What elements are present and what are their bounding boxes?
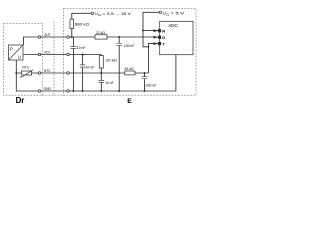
svg-text:Dr: Dr (16, 96, 25, 105)
svg-text:R: R (162, 28, 165, 33)
svg-text:ADC: ADC (168, 23, 178, 28)
svg-text:10 nF: 10 nF (77, 46, 86, 50)
svg-text:20 kΩ: 20 kΩ (106, 59, 117, 63)
svg-text:680 kΩ: 680 kΩ (75, 22, 90, 26)
svg-text:D: D (162, 35, 165, 40)
svg-text:P: P (10, 47, 13, 52)
svg-text:39 kΩ: 39 kΩ (125, 67, 134, 71)
svg-text:OUT: OUT (44, 33, 51, 37)
svg-text:E: E (127, 98, 132, 105)
svg-text:= 5 V: = 5 V (170, 10, 184, 15)
svg-text:U: U (18, 54, 21, 59)
svg-text:VCC: VCC (44, 51, 51, 55)
svg-text:CL: CL (166, 12, 170, 16)
svg-text:= 5,5 ... 16 V: = 5,5 ... 16 V (103, 11, 132, 16)
svg-text:100 nF: 100 nF (124, 44, 135, 48)
svg-text:NTC: NTC (22, 65, 29, 69)
svg-text:10 nF: 10 nF (105, 81, 114, 85)
svg-text:CL: CL (98, 13, 102, 17)
svg-text:GND: GND (44, 87, 51, 91)
svg-text:10 nF: 10 nF (86, 66, 95, 70)
svg-text:100 nF: 100 nF (145, 84, 157, 88)
svg-text:22 kΩ: 22 kΩ (96, 31, 105, 35)
svg-text:NTC: NTC (44, 69, 51, 73)
